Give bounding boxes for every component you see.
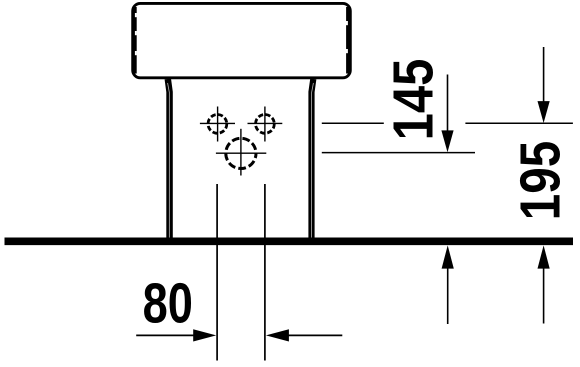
hole center large xyxy=(216,129,266,176)
svg-text:195: 195 xyxy=(510,141,573,221)
tank inner right line xyxy=(346,7,348,74)
hole right small xyxy=(248,107,283,142)
pedestal left side xyxy=(168,79,170,238)
hole left small xyxy=(200,107,235,142)
dimension 145 line and arrows xyxy=(441,75,453,325)
tank inner left line xyxy=(135,7,137,74)
dimension 80 extension lines xyxy=(217,184,265,361)
extension line lower (large hole level) xyxy=(322,152,475,154)
svg-text:145: 145 xyxy=(382,59,445,141)
extension line upper (small holes level) xyxy=(322,122,573,124)
dimension 80 line and arrows xyxy=(136,329,342,341)
svg-text:80: 80 xyxy=(143,272,193,335)
dimension 195 line and arrows xyxy=(538,47,550,324)
floor line xyxy=(5,237,574,245)
pedestal right side xyxy=(312,79,314,238)
tank body outline xyxy=(133,3,351,77)
